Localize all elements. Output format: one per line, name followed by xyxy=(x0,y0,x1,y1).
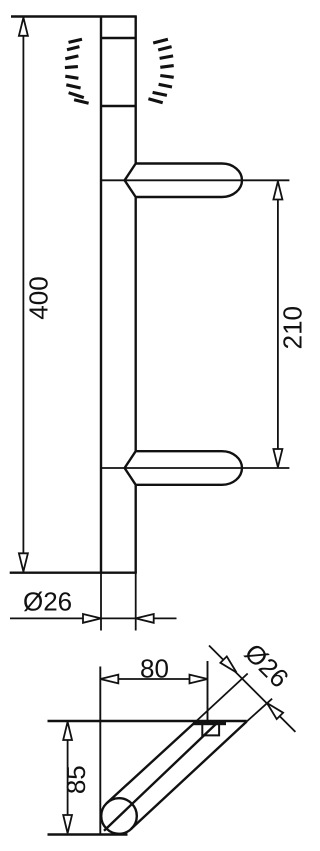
bar top cap joint line xyxy=(101,37,136,39)
dimension line 400 xyxy=(22,18,24,572)
dimension line d26 side view (45 deg) xyxy=(209,646,295,732)
bar bottom end line + extension line of 400 dim xyxy=(10,572,137,574)
lower support (bullet shape) xyxy=(125,451,242,485)
bar top end line + extension line of 400 dim xyxy=(11,15,137,17)
lower support centerline / extension line of 210 dim xyxy=(101,467,289,469)
bar grip joint line xyxy=(101,105,136,107)
side view: flange plate xyxy=(193,722,226,726)
side view: support upper silhouette line xyxy=(107,723,195,804)
upper support (bullet shape) xyxy=(125,164,242,198)
arrow 210 top xyxy=(273,181,282,199)
dimension line 85 xyxy=(67,722,69,833)
knurl marks right fan xyxy=(148,39,173,102)
svg-text:Ø26: Ø26 xyxy=(23,587,72,617)
knurl marks left fan xyxy=(65,39,89,103)
extension lines of diameter 26 (front view) xyxy=(100,573,102,631)
svg-text:210: 210 xyxy=(277,306,307,349)
arrow 400 bottom xyxy=(19,553,28,571)
dimension line 80 xyxy=(100,678,207,680)
arrow d26 side upper xyxy=(220,656,236,672)
extension of lower silhouette for d26 dim xyxy=(247,699,272,722)
side view: bar cross-section circle xyxy=(101,798,137,834)
arrow 80 left xyxy=(100,675,118,684)
arrow d26 left xyxy=(83,614,101,623)
side view: door surface line xyxy=(48,720,247,722)
side view: flange square xyxy=(202,725,219,735)
side view: bottom tangent line xyxy=(48,833,128,835)
arrow 80 right xyxy=(190,675,208,684)
extension line 80 right xyxy=(207,661,209,721)
arrow 400 top xyxy=(19,18,28,36)
arrow d26 side lower xyxy=(267,703,283,719)
arrow 85 bottom xyxy=(63,815,72,833)
svg-text:85: 85 xyxy=(61,765,91,794)
arrow 210 bottom xyxy=(273,449,282,467)
dimension line 210 xyxy=(277,181,279,467)
svg-text:400: 400 xyxy=(24,276,54,319)
bar outline (front view vertical tube) xyxy=(101,17,136,573)
extension of upper silhouette for d26 dim xyxy=(195,674,248,723)
dimension line diameter 26 (front view) xyxy=(10,617,177,619)
arrow d26 right xyxy=(136,614,154,623)
upper support centerline / extension line of 210 dim xyxy=(101,179,289,181)
arrow 85 top xyxy=(63,722,72,740)
side view: support inner line xyxy=(104,723,217,831)
side view: support lower silhouette line xyxy=(131,722,247,830)
svg-text:80: 80 xyxy=(140,654,169,684)
extension line 80 left xyxy=(99,667,101,835)
